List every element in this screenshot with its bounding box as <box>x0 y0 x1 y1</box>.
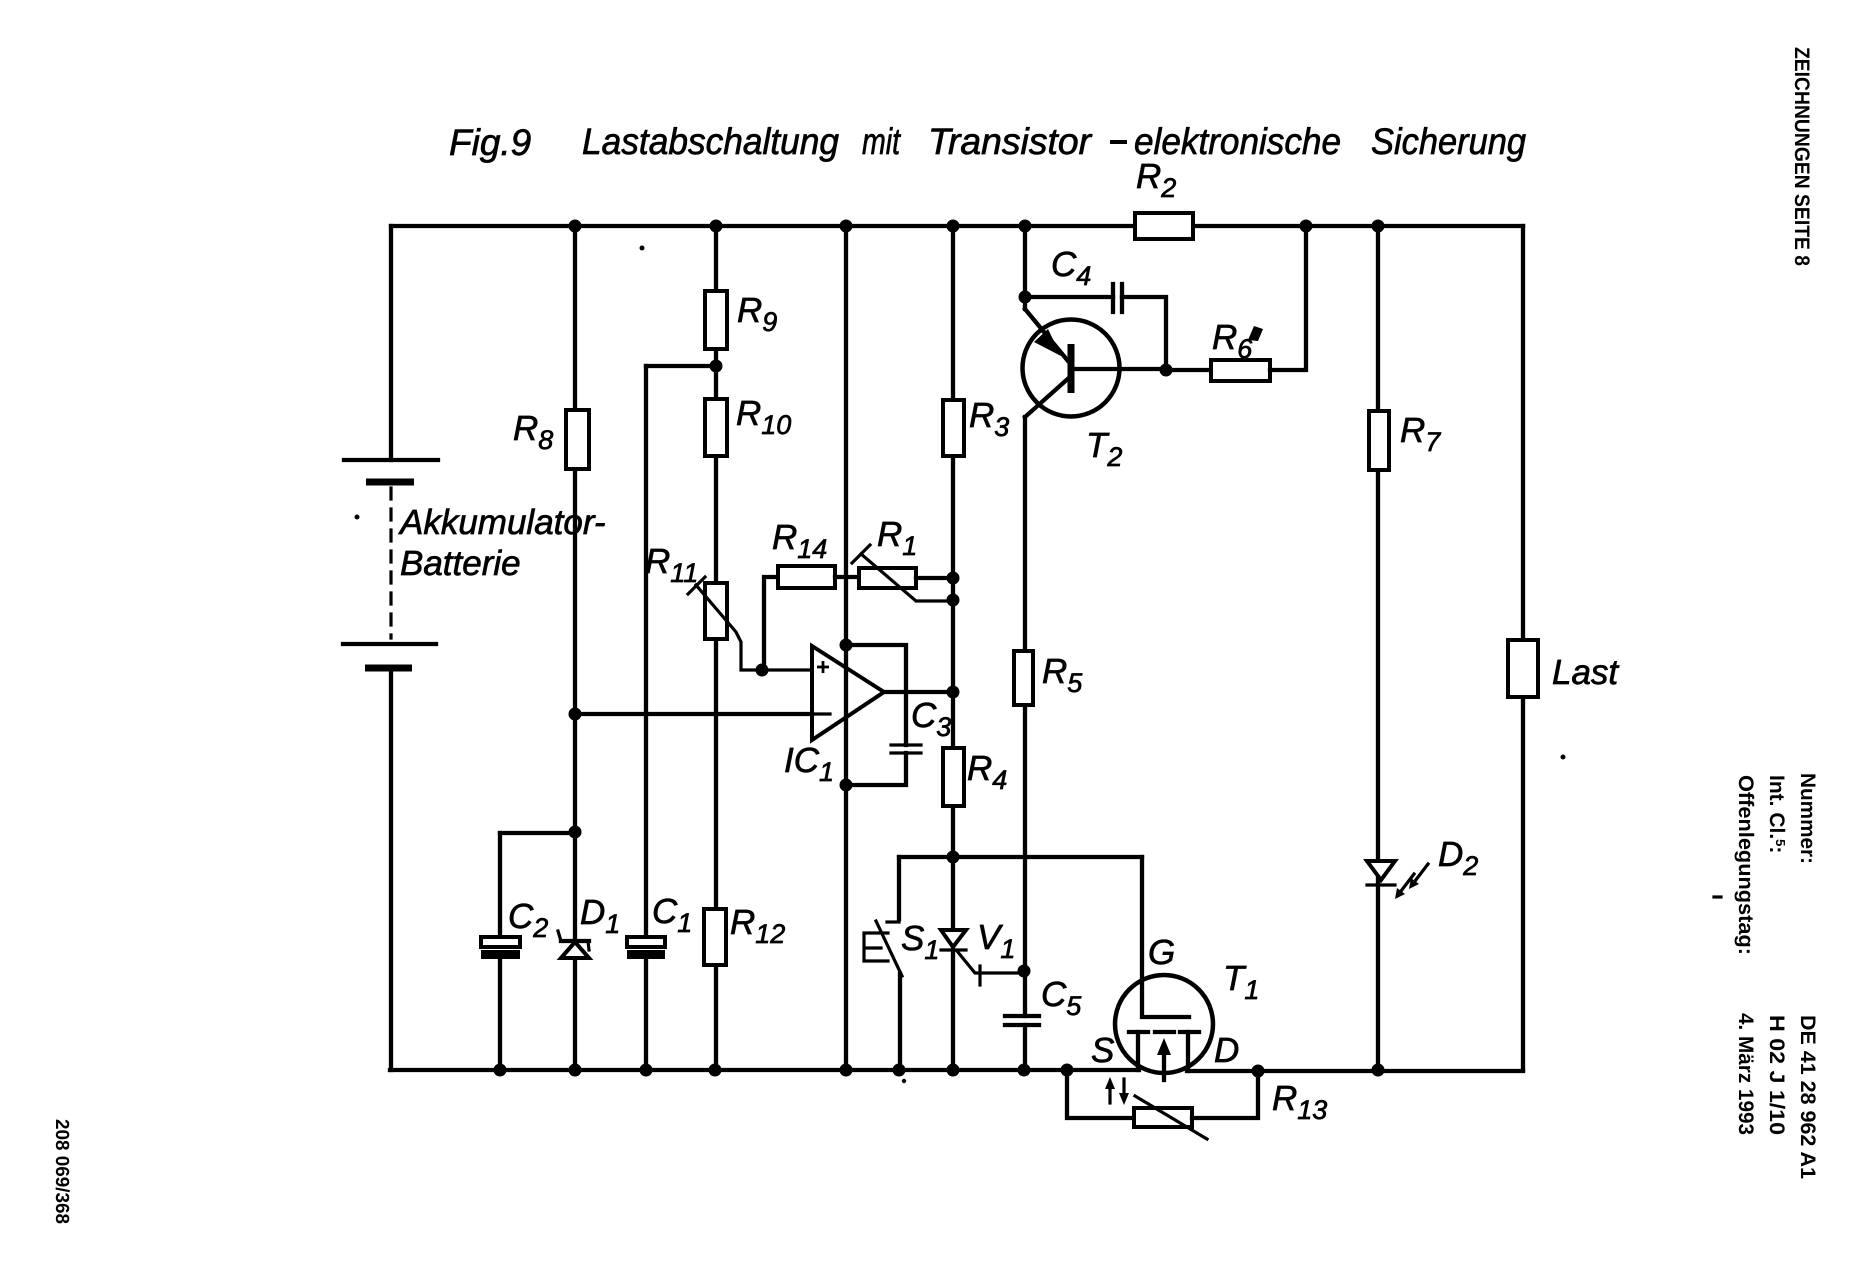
junction dots misc <box>569 291 1173 978</box>
svg-text:Transistor: Transistor <box>928 121 1093 162</box>
junction dots top rail <box>569 220 1385 233</box>
resistor R12 <box>704 909 726 965</box>
capacitor C3 <box>891 745 921 753</box>
svg-text:Nummer:: Nummer: <box>1796 773 1819 864</box>
potentiometer R1 <box>852 545 953 601</box>
svg-text:ZEICHNUNGEN SEITE 8: ZEICHNUNGEN SEITE 8 <box>1790 47 1813 266</box>
wire top supply rail <box>391 224 1523 228</box>
transistor T1 (MOSFET) <box>1115 857 1213 1080</box>
title caption <box>582 121 1526 162</box>
resistor R7 <box>1369 411 1389 470</box>
svg-text:4. März 1993: 4. März 1993 <box>1734 1013 1757 1135</box>
junction dots bottom rail <box>494 1064 1385 1078</box>
wire C1 column <box>644 366 648 1070</box>
wire R9/R10/R11/R12 column <box>714 226 718 1070</box>
op-amp IC1 <box>812 646 884 740</box>
resistor R6 <box>1166 226 1306 381</box>
resistor R2 <box>1135 213 1193 239</box>
wire op-amp feedback loop <box>846 645 906 785</box>
capacitor C5 <box>1005 1016 1039 1025</box>
wire gate drive (R4 bottom to S1 and T1 gate) <box>899 855 1142 859</box>
arrows up/down at R13 <box>1105 1077 1129 1105</box>
svg-text:H 02 J 1/10: H 02 J 1/10 <box>1765 1015 1788 1135</box>
capacitor C1 <box>627 937 665 959</box>
potentiometer R11 <box>688 577 812 670</box>
resistor R9 <box>705 291 727 349</box>
switch S1 <box>864 857 902 1070</box>
svg-text:S: S <box>1091 1031 1114 1070</box>
wire R9/R10 junction to C1 column <box>646 364 716 368</box>
resistor R13 (shunt below T1) <box>1067 1070 1258 1139</box>
svg-text:208 069/368: 208 069/368 <box>51 1119 72 1224</box>
resistor R10 <box>705 399 727 456</box>
diode D1 (zener) <box>558 931 589 958</box>
wire R5 column (T2 collector down) <box>1023 417 1027 1070</box>
svg-text:Batterie: Batterie <box>400 544 521 583</box>
wire op-amp inverting input (from R8 column) <box>575 712 812 716</box>
wire bottom return rail (left part, to T1 source) <box>390 1068 1139 1072</box>
svg-text:D: D <box>1214 1031 1239 1070</box>
thyristor V1 <box>941 930 1018 985</box>
load Last <box>1508 640 1538 697</box>
capacitor C4 <box>1025 284 1166 370</box>
svg-text:Offenlegungstag:: Offenlegungstag: <box>1734 775 1757 955</box>
svg-text:Last: Last <box>1552 653 1619 692</box>
wire C2 top connection <box>500 831 575 835</box>
wire center column (top rail to op-amp feedback node) <box>844 226 848 1070</box>
capacitor C2 <box>481 937 520 959</box>
wire R7/D2 column <box>1376 226 1380 1070</box>
wire right branch (Last column) <box>1521 226 1525 1070</box>
svg-text:Sicherung: Sicherung <box>1371 121 1526 162</box>
resistor R4 <box>943 748 964 806</box>
svg-text:elektronische: elektronische <box>1134 121 1341 162</box>
svg-text:Lastabschaltung: Lastabschaltung <box>582 121 839 162</box>
wire op-amp output <box>884 690 953 694</box>
resistor R5 <box>1014 651 1033 705</box>
svg-text:DE 41 28 962 A1: DE 41 28 962 A1 <box>1796 1015 1819 1179</box>
speck marks <box>355 515 360 520</box>
resistor R14 <box>764 566 859 670</box>
resistor R8 <box>566 410 589 469</box>
svg-text:G: G <box>1148 933 1175 972</box>
battery Akkumulator-Batterie <box>343 226 438 1070</box>
svg-text:Fig.9: Fig.9 <box>449 122 531 163</box>
wire bottom return rail (right part, from T1 drain) <box>1187 1069 1523 1073</box>
svg-text:mit: mit <box>862 121 901 162</box>
wire R8/D1 column <box>573 226 577 1070</box>
transistor T2 (PNP) <box>1023 226 1167 417</box>
wire R3/R4/V1 column <box>951 226 955 1070</box>
resistor R3 <box>943 400 964 456</box>
mark next to R6 <box>1248 326 1263 341</box>
diode D2 (LED) <box>1367 861 1428 899</box>
wire C2 column <box>498 833 502 1070</box>
